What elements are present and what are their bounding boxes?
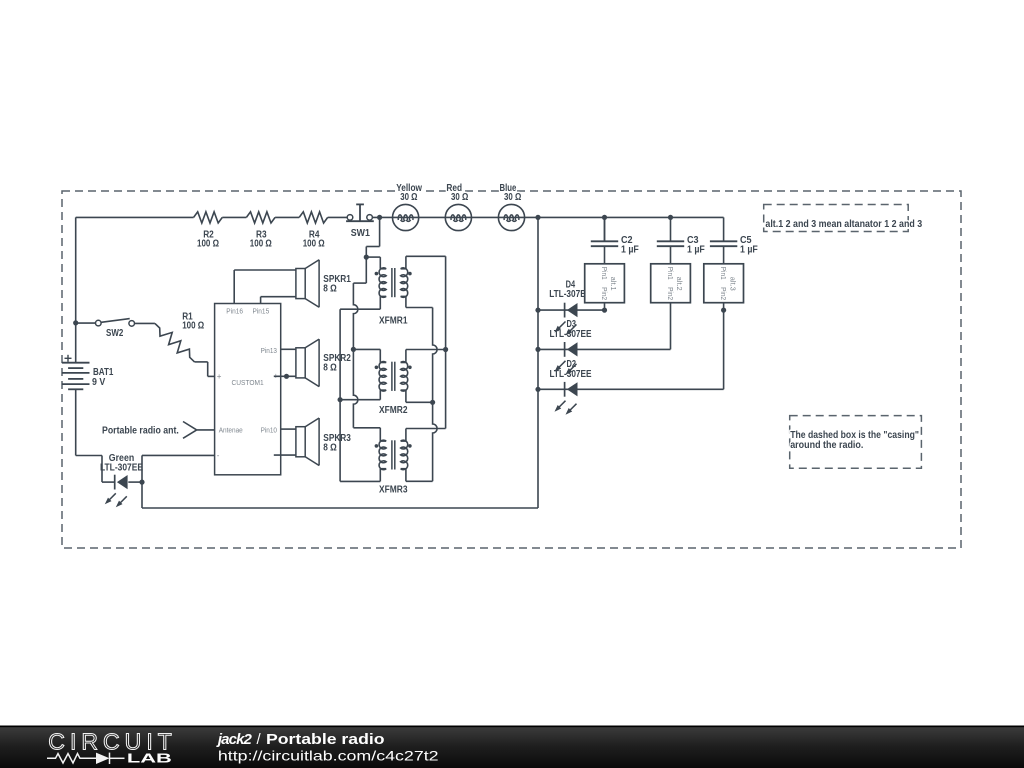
svg-text:8 Ω: 8 Ω	[323, 284, 337, 295]
svg-text:-: -	[217, 451, 220, 460]
svg-text:1 µF: 1 µF	[621, 245, 639, 256]
svg-text:LTL-307EE: LTL-307EE	[100, 462, 143, 473]
svg-text:alt.1: alt.1	[609, 277, 618, 291]
svg-text:Pin10: Pin10	[261, 426, 277, 435]
svg-text:Pin16: Pin16	[226, 307, 243, 316]
svg-text:XFMR3: XFMR3	[379, 485, 408, 496]
svg-text:+: +	[217, 372, 222, 381]
svg-text:LAB: LAB	[127, 751, 172, 765]
svg-text:around the radio.: around the radio.	[790, 439, 863, 451]
svg-text:Pin2: Pin2	[666, 287, 675, 300]
svg-text:Portable radio: Portable radio	[266, 731, 385, 748]
svg-text:100 Ω: 100 Ω	[182, 321, 204, 332]
svg-text:30 Ω: 30 Ω	[504, 192, 521, 203]
svg-text:alt.1 2 and 3 mean altanator 1: alt.1 2 and 3 mean altanator 1 2 and 3	[765, 218, 922, 230]
svg-text:Pin15: Pin15	[253, 307, 270, 316]
svg-text:CUSTOM1: CUSTOM1	[232, 378, 264, 387]
svg-text:Pin1: Pin1	[666, 267, 675, 280]
svg-text:8 Ω: 8 Ω	[323, 363, 337, 374]
svg-text:alt.2: alt.2	[675, 277, 684, 291]
svg-text:Pin1: Pin1	[600, 267, 609, 280]
svg-text:100 Ω: 100 Ω	[197, 239, 219, 250]
svg-text:30 Ω: 30 Ω	[400, 192, 417, 203]
svg-text:http://circuitlab.com/c4c27t2: http://circuitlab.com/c4c27t2	[218, 748, 439, 764]
svg-text:100 Ω: 100 Ω	[303, 239, 325, 250]
svg-text:Pin2: Pin2	[600, 287, 609, 300]
svg-text:SW1: SW1	[351, 228, 370, 239]
svg-text:8 Ω: 8 Ω	[323, 442, 337, 453]
svg-text:100 Ω: 100 Ω	[250, 239, 272, 250]
svg-text:XFMR1: XFMR1	[379, 315, 408, 326]
svg-text:Antenae: Antenae	[219, 426, 243, 435]
svg-text:30 Ω: 30 Ω	[451, 192, 468, 203]
svg-text:9 V: 9 V	[92, 377, 106, 388]
svg-text:XFMR2: XFMR2	[379, 405, 408, 416]
svg-text:Pin13: Pin13	[261, 346, 277, 355]
svg-text:jack2: jack2	[216, 731, 253, 748]
svg-text:Pin2: Pin2	[719, 287, 728, 300]
svg-text:alt.3: alt.3	[728, 277, 737, 291]
svg-text:1 µF: 1 µF	[687, 245, 705, 256]
svg-text:SW2: SW2	[106, 328, 124, 339]
svg-text:Pin1: Pin1	[719, 267, 728, 280]
svg-text:1 µF: 1 µF	[740, 245, 758, 256]
svg-text:Portable radio ant.: Portable radio ant.	[102, 425, 179, 436]
